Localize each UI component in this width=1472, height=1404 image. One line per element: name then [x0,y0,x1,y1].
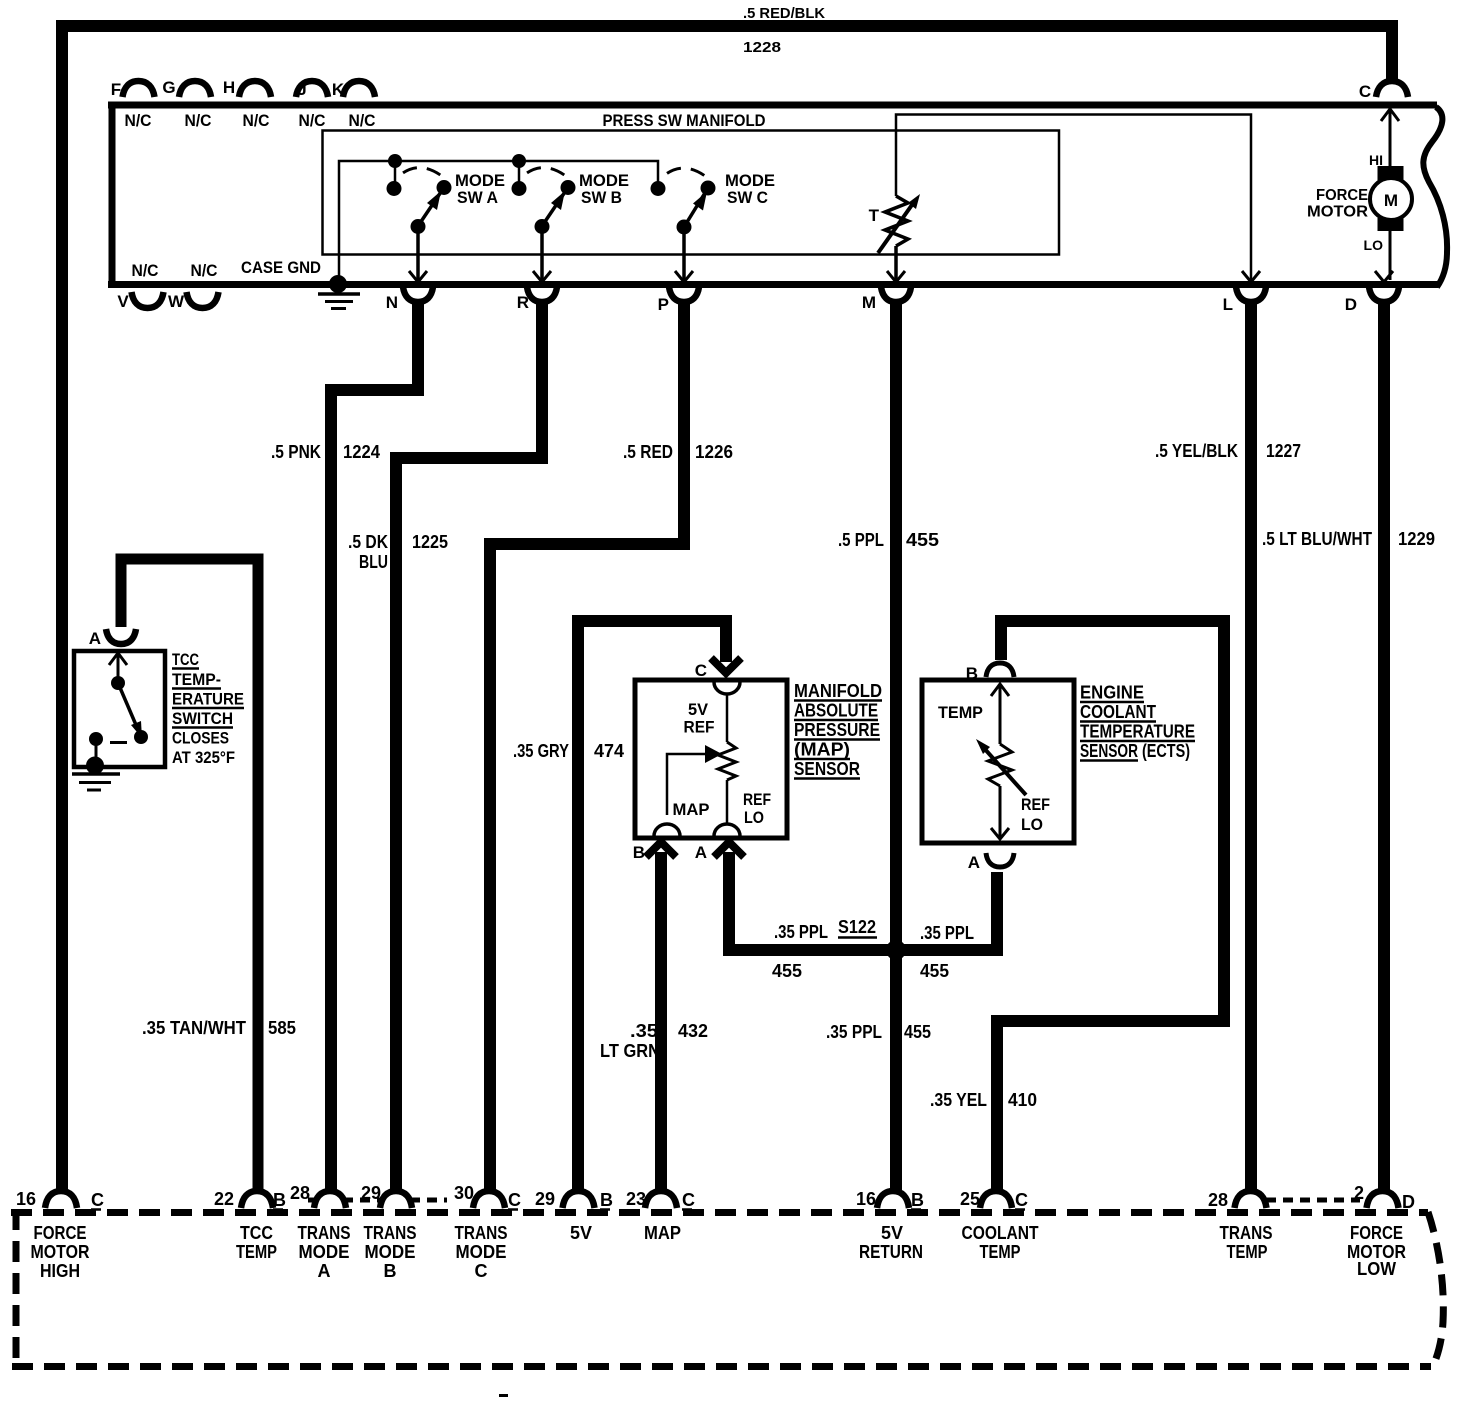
svg-text:16: 16 [856,1189,876,1209]
svg-text:TRANS: TRANS [298,1223,351,1243]
svg-text:HIGH: HIGH [40,1261,80,1281]
svg-text:HI: HI [1369,152,1383,168]
svg-text:25: 25 [960,1189,980,1209]
svg-text:C: C [1015,1190,1028,1210]
svg-text:ERATURE: ERATURE [172,690,244,709]
svg-text:TEMP-: TEMP- [172,670,221,689]
svg-text:.5 LT BLU/WHT: .5 LT BLU/WHT [1262,529,1372,549]
svg-text:1225: 1225 [412,532,448,552]
svg-text:LO: LO [744,808,764,827]
svg-text:LO: LO [1021,815,1043,834]
svg-text:SW C: SW C [727,188,768,207]
svg-text:C: C [1359,82,1371,101]
svg-text:.5 RED: .5 RED [623,442,673,462]
svg-text:TCC: TCC [172,650,199,669]
svg-text:.5 PNK: .5 PNK [271,442,321,462]
svg-text:D: D [1345,295,1357,314]
svg-text:TRANS: TRANS [364,1223,417,1243]
svg-text:22: 22 [214,1189,234,1209]
svg-text:COOLANT: COOLANT [962,1223,1039,1243]
svg-text:REF: REF [1021,795,1050,814]
svg-text:MOTOR: MOTOR [1307,204,1368,221]
svg-text:28: 28 [290,1183,310,1203]
svg-text:B: B [273,1190,286,1210]
svg-text:K: K [332,80,345,99]
svg-text:C: C [91,1190,104,1210]
svg-text:TEMP: TEMP [1227,1242,1268,1262]
svg-text:B: B [600,1190,613,1210]
svg-text:MANIFOLD: MANIFOLD [794,681,882,701]
svg-text:SW A: SW A [457,188,498,207]
svg-text:.35 TAN/WHT: .35 TAN/WHT [142,1018,246,1038]
svg-text:5V: 5V [570,1223,592,1243]
svg-text:AT 325°F: AT 325°F [172,748,235,767]
svg-text:S122: S122 [838,917,876,937]
svg-text:2: 2 [1354,1183,1364,1203]
svg-text:B: B [966,664,978,683]
svg-text:.5 DK: .5 DK [348,532,388,552]
svg-text:B: B [384,1261,397,1281]
svg-text:30: 30 [454,1183,474,1203]
svg-text:CLOSES: CLOSES [172,729,229,748]
svg-text:FORCE: FORCE [1350,1223,1403,1243]
svg-text:LO: LO [1364,237,1384,253]
svg-text:TEMP: TEMP [938,703,983,722]
svg-text:TRANS: TRANS [1220,1223,1273,1243]
svg-text:474: 474 [594,741,624,761]
svg-text:N/C: N/C [125,111,152,130]
svg-text:23: 23 [626,1189,646,1209]
svg-text:N/C: N/C [191,261,218,280]
svg-text:G: G [162,78,175,97]
svg-text:MAP: MAP [673,800,710,819]
svg-text:SENSOR (ECTS): SENSOR (ECTS) [1080,741,1190,761]
svg-text:1224: 1224 [343,442,380,462]
svg-text:M: M [1384,191,1398,210]
svg-text:T: T [869,206,880,225]
svg-text:L: L [1223,295,1233,314]
svg-text:5V: 5V [688,700,709,719]
svg-text:REF: REF [684,718,715,737]
svg-text:ABSOLUTE: ABSOLUTE [794,701,878,721]
svg-text:.5 PPL: .5 PPL [838,530,884,550]
svg-text:N/C: N/C [349,111,376,130]
svg-text:585: 585 [268,1018,296,1038]
svg-text:LT GRN: LT GRN [600,1041,660,1061]
svg-text:MOTOR: MOTOR [31,1242,90,1262]
svg-text:TCC: TCC [240,1223,273,1243]
svg-text:RETURN: RETURN [859,1242,923,1262]
svg-text:N/C: N/C [299,111,326,130]
svg-text:N: N [386,293,398,312]
svg-text:A: A [695,843,707,862]
svg-text:F: F [111,80,121,99]
svg-text:432: 432 [678,1021,708,1041]
svg-text:1226: 1226 [695,442,733,462]
svg-text:FORCE: FORCE [34,1223,87,1243]
svg-text:TRANS: TRANS [455,1223,508,1243]
svg-text:D: D [1402,1192,1415,1212]
svg-text:TEMPERATURE: TEMPERATURE [1080,722,1195,742]
svg-text:B: B [633,843,645,862]
svg-text:A: A [968,853,980,872]
svg-text:A: A [318,1261,331,1281]
svg-text:SW B: SW B [581,188,622,207]
svg-text:.5 YEL/BLK: .5 YEL/BLK [1155,441,1238,461]
svg-text:A: A [89,629,101,648]
svg-text:MODE: MODE [456,1242,507,1262]
svg-text:W: W [168,292,185,311]
svg-text:J: J [297,80,306,99]
svg-text:N/C: N/C [132,261,159,280]
svg-text:C: C [508,1190,521,1210]
svg-text:455: 455 [772,961,802,981]
svg-text:16: 16 [16,1189,36,1209]
svg-text:SWITCH: SWITCH [172,709,233,728]
svg-text:.35 GRY: .35 GRY [513,741,569,761]
svg-text:.35 PPL: .35 PPL [774,922,828,942]
svg-text:R: R [517,293,529,312]
svg-text:MAP: MAP [644,1223,681,1243]
svg-text:.35 YEL: .35 YEL [930,1090,987,1110]
svg-text:FORCE: FORCE [1316,187,1368,204]
svg-text:SENSOR: SENSOR [794,759,860,779]
svg-text:M: M [862,293,876,312]
svg-text:.5 RED/BLK: .5 RED/BLK [743,5,825,22]
svg-text:H: H [223,78,235,97]
svg-text:MODE: MODE [299,1242,350,1262]
svg-text:CASE GND: CASE GND [241,258,321,277]
svg-text:455: 455 [906,530,939,550]
svg-text:1228: 1228 [743,39,781,56]
svg-text:455: 455 [904,1022,931,1042]
svg-text:PRESSURE: PRESSURE [794,720,880,740]
svg-text:29: 29 [535,1189,555,1209]
svg-text:MODE: MODE [365,1242,416,1262]
svg-text:1229: 1229 [1398,529,1435,549]
svg-text:(MAP): (MAP) [794,740,850,760]
svg-text:1227: 1227 [1266,441,1301,461]
svg-text:5V: 5V [881,1223,903,1243]
svg-text:N/C: N/C [243,111,270,130]
svg-text:B: B [911,1190,924,1210]
svg-text:29: 29 [361,1183,381,1203]
svg-text:P: P [658,295,669,314]
svg-text:TEMP: TEMP [980,1242,1021,1262]
svg-text:REF: REF [743,790,771,809]
svg-text:PRESS SW MANIFOLD: PRESS SW MANIFOLD [603,111,766,130]
svg-text:410: 410 [1008,1090,1037,1110]
svg-text:LOW: LOW [1357,1259,1396,1279]
svg-text:.35 PPL: .35 PPL [826,1022,882,1042]
svg-text:N/C: N/C [185,111,212,130]
svg-text:C: C [682,1190,695,1210]
svg-text:28: 28 [1208,1190,1228,1210]
svg-text:C: C [475,1261,488,1281]
svg-text:455: 455 [920,961,949,981]
svg-text:ENGINE: ENGINE [1080,683,1144,703]
svg-text:V: V [117,292,129,311]
svg-text:C: C [695,661,707,680]
svg-text:TEMP: TEMP [236,1242,277,1262]
svg-text:.35 PPL: .35 PPL [920,923,974,943]
svg-text:COOLANT: COOLANT [1080,702,1156,722]
svg-text:.35: .35 [630,1021,658,1041]
svg-text:BLU: BLU [359,552,388,572]
